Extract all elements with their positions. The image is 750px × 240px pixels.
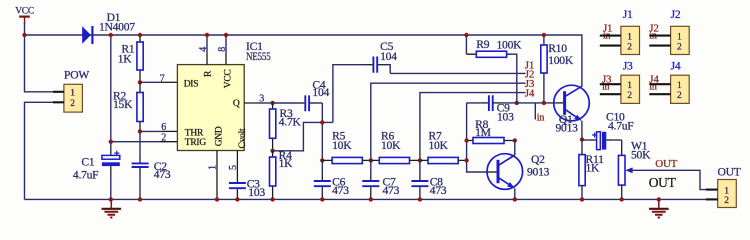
resistor R11 1K [579,140,604,200]
potentiometer W1 50K [618,139,706,199]
junction R10 bottom on J4 line [542,101,546,105]
pin 2 [706,198,718,200]
connector POW [53,69,89,113]
wire bottom ground rail [25,198,718,200]
capacitor C5 104 [333,40,397,122]
svg-text:2: 2 [677,43,682,53]
junction at D1 cathode [109,33,113,37]
svg-text:C1: C1 [81,156,94,169]
svg-text:7: 7 [160,74,165,85]
wire D1 cathode column down to TRIG [110,35,112,142]
junction TRIG/C1 [109,140,113,144]
junction at VCC rail left [22,33,26,37]
pin 2 [649,45,670,47]
svg-text:in: in [602,81,610,92]
svg-text:5: 5 [228,165,239,170]
svg-text:VCC: VCC [224,69,234,88]
connector J2 [649,8,689,54]
wire jog R3/R4 node to ladder node [273,122,333,150]
svg-text:1: 1 [677,81,682,91]
pin 1 [649,35,670,37]
junction R2/C2/THR [138,129,142,133]
svg-text:4.7uF: 4.7uF [73,169,99,182]
wire net line J4 horizontal [467,102,556,104]
svg-text:R: R [204,70,214,77]
svg-text:1: 1 [627,81,632,91]
ground symbol right [649,199,669,217]
wire pin 1 GND to rail [216,151,218,200]
svg-text:J2: J2 [671,8,681,21]
transistor Q2 9013 [487,141,550,200]
resistor R9 100K [466,35,522,103]
svg-text:10K: 10K [429,139,449,152]
svg-text:J3: J3 [623,59,633,72]
svg-text:1K: 1K [118,53,133,66]
junction C3 at rail [235,197,239,201]
svg-text:1: 1 [207,165,218,170]
resistor R4 1K [270,149,294,200]
junction R7 right node [464,158,468,162]
connector OUT [706,165,741,207]
svg-text:10K: 10K [332,139,352,152]
svg-text:NE555: NE555 [246,50,271,63]
resistor R2 15K [113,82,143,131]
svg-text:2: 2 [161,133,166,144]
svg-text:473: 473 [332,184,349,197]
resistor R5 10K [322,129,371,163]
svg-text:J4: J4 [525,87,535,99]
svg-text:8: 8 [217,47,228,52]
resistor R1 1K [118,35,143,82]
svg-text:TRIG: TRIG [185,138,207,148]
svg-text:J1: J1 [623,8,633,21]
capacitor C8 473 [411,160,446,199]
wire pin 3 Q output [244,102,262,104]
svg-text:104: 104 [380,50,397,63]
pin 2 [53,101,64,103]
op-amp timer IC1 NE555 [177,40,270,150]
wire net line J1 [390,72,525,74]
svg-text:4: 4 [198,47,209,52]
diode D1 1N4007 [82,11,135,44]
svg-text:103: 103 [497,111,514,124]
wire POW pin1 branch [25,35,54,92]
junction R8 right / Q2 collector [513,138,517,142]
svg-text:Q: Q [233,99,240,109]
svg-text:6: 6 [161,122,166,133]
ground symbol left [102,199,122,217]
svg-text:2: 2 [677,91,682,101]
connector J4 [649,59,689,103]
junction R10 top on rail [542,33,546,37]
capacitor C6 473 [314,160,349,199]
svg-text:473: 473 [154,168,171,181]
wire TRIG pin 2 to left column [111,141,160,143]
svg-text:2: 2 [627,91,632,101]
svg-text:50K: 50K [631,149,651,162]
wiper arrow [625,167,632,173]
pin 2 [600,45,621,47]
wire R1 bottom to DIS pin 7 [140,81,162,83]
capacitor C10 4.7uF electrolytic [582,110,634,149]
svg-text:1: 1 [70,89,75,99]
junction R5/R6 node [369,158,373,162]
connector J1 [600,8,640,54]
wire net line J4 vertical from R7/R8 node [467,103,490,172]
pin 1 [649,83,670,85]
svg-text:103: 103 [248,186,265,199]
wire R2 bottom to THR pin 6 [140,130,162,132]
junction R1/R2/DIS [138,80,142,84]
wire pin 4 R to rail [206,35,208,53]
svg-text:9013: 9013 [527,165,550,178]
junction ladder node A [320,120,324,124]
capacitor C9 103 [481,95,514,123]
junction C7 at rail [369,197,373,201]
svg-text:1: 1 [627,32,632,42]
svg-text:THR: THR [185,128,204,138]
svg-text:1: 1 [677,32,682,42]
junction Q2 emitter at rail [513,197,517,201]
svg-text:1N4007: 1N4007 [99,20,135,33]
junction C6 at rail [320,197,324,201]
junction C8 at rail [418,197,422,201]
junction R1 top on rail [138,33,142,37]
svg-text:100K: 100K [548,54,574,67]
wire VCC stem to rail [24,23,26,35]
junction Q output node [270,101,274,105]
svg-text:VCC: VCC [15,7,34,17]
wire top VCC rail [25,35,582,87]
wire C2 column [139,131,141,156]
svg-text:DIS: DIS [184,79,199,89]
junction R6/R7 node [418,158,422,162]
junction W1 at rail [620,197,624,201]
pin 2 [600,93,621,95]
svg-text:473: 473 [383,184,400,197]
wire net line J3 from R6/R7 node [420,93,526,161]
resistor R10 100K [541,35,574,103]
transistor Q1 9013 [554,85,590,139]
pin 1 [600,83,621,85]
wire pin 8 VCC to rail [225,35,227,53]
svg-text:104: 104 [312,86,329,99]
pin 1 [706,189,718,191]
pin 1 [600,35,621,37]
svg-text:OUT: OUT [718,165,741,178]
svg-text:in: in [649,81,657,92]
svg-text:473: 473 [430,184,447,197]
svg-text:4.7uF: 4.7uF [608,120,634,133]
svg-text:10K: 10K [381,139,401,152]
junction R3/R4 node [270,149,274,153]
svg-text:9013: 9013 [556,122,579,135]
svg-text:4.7K: 4.7K [279,116,302,129]
svg-text:15K: 15K [113,98,133,111]
capacitor C1 4.7uF electrolytic [73,142,120,200]
junction Q1 emitter / R11 / C10 [580,137,584,141]
svg-text:Cvolt: Cvolt [238,128,248,148]
capacitor C4 104 [273,78,330,111]
svg-text:in: in [537,113,545,124]
svg-text:1K: 1K [586,162,601,175]
svg-text:3: 3 [259,94,264,105]
junction R8 left [464,138,468,142]
svg-text:1K: 1K [279,157,294,170]
svg-text:2: 2 [70,99,75,109]
svg-text:100K: 100K [497,38,523,51]
net label in with stub [535,103,544,124]
svg-text:OUT: OUT [649,175,677,190]
wire C4 down through ladder node to R5 [321,103,323,160]
svg-text:2: 2 [724,196,729,206]
junction R5 left node [320,158,324,162]
resistor R7 10K [420,129,467,163]
resistor R3 4.7K [270,103,302,151]
pin 1 [53,91,64,93]
svg-text:GND: GND [214,126,224,146]
capacitor C3 103 [229,177,265,199]
svg-text:1: 1 [724,186,729,196]
connector J3 [600,59,640,103]
wire POW pin2 to ground rail [25,102,54,199]
resistor R8 1M [467,118,515,144]
wire pin 5 Cvolt to C3 [236,151,238,183]
svg-text:OUT: OUT [655,158,677,170]
svg-text:Q2: Q2 [531,153,545,166]
svg-text:J4: J4 [671,59,681,72]
svg-text:POW: POW [64,69,89,82]
pin 2 [649,93,670,95]
capacitor C2 473 [132,157,171,200]
junction R11 at rail [580,197,584,201]
junction C2 at rail [138,197,142,201]
resistor R6 10K [371,129,420,163]
junction R9 bottom on J4 line [515,101,519,105]
capacitor C7 473 [362,160,399,199]
power symbol VCC [15,7,34,24]
junction ground right at rail [657,197,661,201]
wire net line J2 from R5/R6 node [371,83,526,160]
junction C1 at rail [109,197,113,201]
svg-text:2: 2 [627,43,632,53]
junction R9 top on rail [464,33,468,37]
junction R4 at rail [270,197,274,201]
svg-text:R9: R9 [476,38,489,51]
svg-text:R10: R10 [548,42,567,55]
